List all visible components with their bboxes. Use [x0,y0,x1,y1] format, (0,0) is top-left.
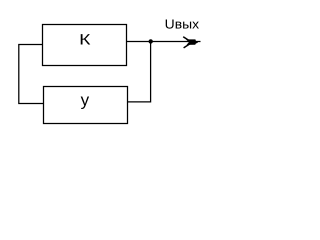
block K (forward amplifier) [43,25,127,66]
wire left feedback loop [19,45,44,104]
svg-text:Uвых: Uвых [165,17,200,32]
svg-text:у: у [81,91,90,110]
junction dot [149,39,153,43]
arrowhead upper barb [183,37,189,41]
arrowhead output [186,39,198,45]
arrowhead lower barb [184,44,190,48]
wire right feedback drop [128,42,151,102]
svg-text:К: К [79,32,91,49]
wire output [127,41,201,43]
block y (feedback network) [44,87,128,124]
